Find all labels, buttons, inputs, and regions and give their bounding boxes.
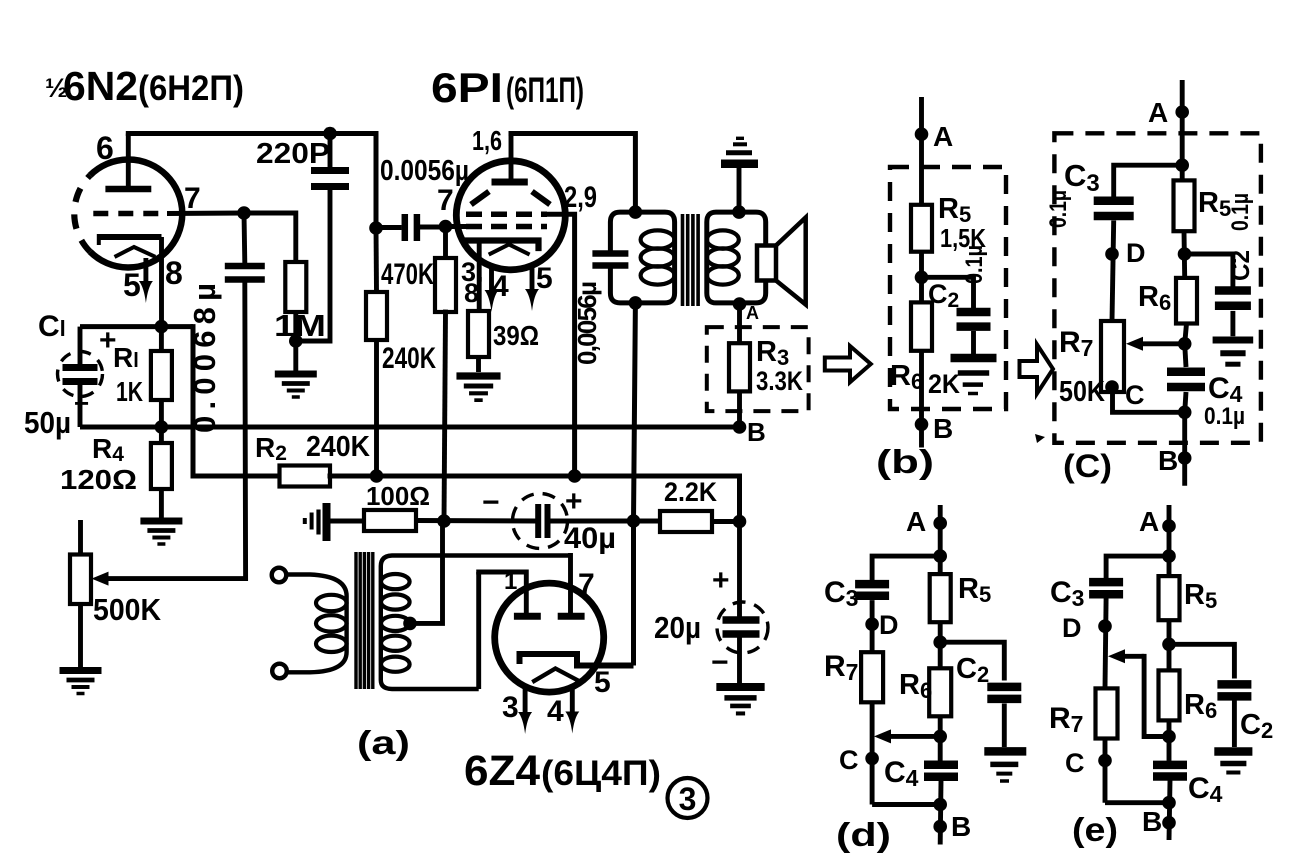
PT HT secondary winding: [381, 556, 570, 690]
node R6/wiper (d): [933, 730, 947, 744]
wire R4 to ground: [159, 489, 164, 518]
wire bottom to B (e): [1105, 800, 1169, 805]
resistor 39 ohm: [468, 311, 489, 357]
node OT primary top: [629, 205, 643, 219]
wiper arrow R7 (d): [888, 734, 938, 739]
wiper arrow 500K: [106, 576, 246, 581]
wire R1 bottom lead: [159, 400, 164, 427]
V1 cathode: [99, 234, 162, 240]
capacitor C2 (d): [987, 683, 1021, 692]
wire R6 to C4 (d): [938, 716, 943, 761]
svg-text:5: 5: [594, 666, 611, 699]
svg-text:B: B: [747, 417, 766, 447]
wire grid node to 0.0068u: [242, 213, 248, 263]
node A junction (c): [1175, 158, 1189, 172]
svg-text:3: 3: [679, 781, 697, 817]
ground below 1M: [275, 374, 317, 397]
svg-text:(e): (e): [1072, 811, 1118, 848]
dashed box (b): [890, 167, 1006, 409]
node B+ filter junction: [733, 515, 747, 529]
node R6/C4/wiper (c): [1178, 337, 1192, 351]
wire cathode bus down to R2: [193, 327, 280, 476]
svg-text:0.1µ: 0.1µ: [1204, 403, 1245, 430]
OT secondary frame: [707, 212, 766, 303]
wire R6 to C4 (e): [1167, 720, 1172, 761]
svg-text:(6П1П): (6П1П): [506, 71, 584, 110]
svg-text:2,9: 2,9: [564, 181, 597, 214]
node B (main): [733, 420, 747, 434]
capacitor C3 (c): [1094, 196, 1134, 205]
V3 anode 1 plate: [514, 613, 541, 620]
svg-text:−: −: [711, 646, 729, 679]
resistor R6 2K (b): [911, 302, 932, 350]
wire coupling cap to V2 grid: [420, 225, 446, 230]
wire bottom to B (d): [872, 802, 940, 807]
resistor R1 1K: [151, 351, 172, 400]
ground below 39 ohm: [456, 376, 500, 400]
svg-text:6Z4: 6Z4: [464, 747, 540, 795]
wire 0.0068u down to volume wiper: [242, 280, 248, 579]
wire OT primary bottom to raw B+ node: [634, 303, 636, 521]
wire anode1 return down: [476, 572, 481, 689]
mains terminal bottom: [272, 664, 287, 679]
wire V3 anode2 lead: [568, 556, 573, 614]
wire to C3 (c): [1114, 165, 1183, 196]
wire R7 to bottom (e): [1103, 739, 1108, 803]
capacitor C2 (b): [957, 308, 991, 317]
svg-text:20µ: 20µ: [654, 610, 701, 645]
V3 heater: [534, 669, 579, 682]
ground above speaker (inverted): [721, 138, 758, 164]
wiper arrow R7 (e): [1122, 654, 1144, 659]
V2 heater: [491, 244, 528, 253]
svg-text:5: 5: [123, 267, 141, 303]
V2 control grid (dashed): [466, 224, 547, 230]
node D (d): [865, 617, 879, 631]
V3 cathode: [520, 654, 631, 666]
svg-text:500K: 500K: [93, 592, 162, 627]
ground below C2 (d): [984, 751, 1026, 781]
resistor 1M: [285, 262, 306, 312]
wire C2 to ground (b): [971, 331, 976, 354]
node OT secondary top (to ground): [732, 205, 746, 219]
wire center tap to bias node: [410, 525, 443, 623]
wire to C2 (d): [940, 642, 1004, 678]
node B junction (d): [933, 798, 947, 812]
electrolytic 20u dashed circle: [717, 602, 768, 653]
wire to coupling cap: [376, 225, 402, 230]
wire C3 to R7 (c): [1112, 221, 1114, 322]
potentiometer 500K body: [70, 555, 91, 605]
wire chassis gnd to 100 ohm: [330, 519, 364, 524]
wire R6 to B stub (b): [919, 351, 924, 448]
svg-text:(b): (b): [876, 443, 934, 480]
node OT primary bottom: [629, 296, 643, 310]
capacitor C1 plates: [63, 364, 98, 371]
svg-text:8: 8: [165, 255, 183, 291]
svg-text:50K: 50K: [1059, 376, 1105, 408]
capacitor 40u plates: [535, 504, 541, 538]
V3 pin 4 heater arrow: [570, 689, 575, 716]
node C (d): [865, 752, 879, 766]
capacitor C2 (e): [1217, 680, 1251, 689]
ground below C2 (e): [1214, 752, 1252, 773]
svg-text:6PI: 6PI: [431, 64, 503, 111]
V1 heater: [116, 247, 153, 256]
node V2 grid junction: [439, 220, 453, 234]
wire to 2.2K: [634, 519, 661, 524]
node A (OT secondary bottom): [733, 297, 747, 311]
wire 1M to ground: [293, 312, 298, 371]
wire grid to 1M: [244, 213, 296, 262]
svg-text:0.0056µ: 0.0056µ: [380, 155, 469, 187]
wire R4 top lead: [159, 427, 164, 443]
capacitor C3 (d): [855, 580, 889, 589]
dashed box (c): [1054, 133, 1261, 443]
wire B+ to 20u: [737, 522, 742, 619]
wire V2 screen to B+ rail: [547, 214, 575, 476]
svg-text:240K: 240K: [306, 431, 370, 463]
svg-text:40µ: 40µ: [564, 522, 616, 555]
V1 grid (dashed): [93, 211, 168, 217]
svg-text:4: 4: [492, 270, 509, 303]
ground below C2 (c): [1213, 340, 1254, 364]
resistor R3 3.3K: [729, 343, 750, 391]
svg-text:A: A: [933, 121, 953, 152]
resistor 240K anode load: [366, 292, 387, 340]
node A (d): [933, 516, 947, 530]
V2 beam plate left: [471, 192, 489, 205]
svg-text:C: C: [1125, 380, 1145, 410]
svg-text:6: 6: [96, 130, 114, 166]
hollow arrow between (a) and (b): [825, 346, 871, 382]
svg-text:2K: 2K: [928, 369, 960, 399]
wire 470K top lead: [443, 227, 448, 259]
svg-text:A: A: [746, 303, 759, 323]
capacitor C4 (d): [924, 761, 958, 770]
wire R3 to B: [737, 391, 742, 427]
V2 pin 4 heater arrow: [489, 266, 494, 294]
dashed box around R3: [707, 327, 809, 411]
svg-text:0,0056µ: 0,0056µ: [572, 281, 602, 365]
V1 cathode hook: [97, 234, 101, 245]
wire C3 to R7 (d): [870, 600, 875, 652]
node B junction (e): [1162, 796, 1176, 810]
resistor R6 (d): [929, 668, 951, 716]
triode V1 1/2 6N2 envelope (dashed left): [90, 160, 182, 268]
small mark left of box (c): [1035, 434, 1045, 443]
svg-text:B: B: [1158, 445, 1178, 476]
wire 39 ohm to ground: [476, 357, 481, 372]
wire 20u to ground: [737, 634, 742, 684]
wire C4 to B stub (d): [938, 781, 944, 845]
wire 2.2K to B+ corner: [712, 519, 740, 524]
node C (c): [1105, 380, 1119, 394]
wire 220P top lead: [328, 134, 333, 168]
capacitor 20u plates: [723, 616, 760, 624]
wire V3 anode1 lead: [479, 572, 527, 613]
wire C3 to R7 (e): [1105, 598, 1106, 688]
wiper arrow R7 (c): [1140, 341, 1185, 346]
svg-text:+: +: [712, 564, 730, 597]
capacitor C4 (e): [1153, 761, 1187, 770]
capacitor 0.0068u: [225, 263, 265, 270]
svg-text:D: D: [1062, 613, 1082, 643]
ground below 20u: [716, 687, 764, 713]
svg-text:(a): (a): [357, 724, 410, 761]
V2 pin 5 heater arrow: [530, 265, 535, 293]
OT primary winding loops: [641, 230, 675, 248]
wire to C3 (e): [1106, 556, 1169, 577]
node bias/CT junction: [437, 514, 451, 528]
wire C2 to ground (c): [1230, 311, 1235, 336]
svg-text:(6Ц4П): (6Ц4П): [541, 754, 661, 793]
node HT center tap: [403, 617, 417, 631]
V2 screen grid (dashed): [466, 212, 547, 218]
svg-text:1K: 1K: [116, 376, 143, 407]
node A junction (e): [1162, 549, 1176, 563]
svg-text:1: 1: [504, 568, 517, 595]
svg-text:1M: 1M: [274, 308, 326, 343]
svg-text:39Ω: 39Ω: [493, 320, 539, 351]
svg-text:0.1µ: 0.1µ: [961, 245, 988, 284]
svg-text:7: 7: [184, 182, 201, 215]
svg-text:120Ω: 120Ω: [60, 464, 137, 495]
capacitor 220P: [311, 167, 349, 174]
node A junction (d): [933, 549, 947, 563]
node B (e): [1162, 816, 1176, 830]
wire V2 anode to output transformer: [511, 134, 635, 213]
wire 500K input stub: [78, 520, 83, 555]
electrolytic C1 50u dashed circle: [58, 352, 103, 397]
node screen on B+ rail: [568, 469, 582, 483]
node C (e): [1098, 754, 1112, 768]
wire to C2 (c): [1185, 254, 1233, 285]
ground below C2 (b): [951, 358, 997, 394]
svg-text:B: B: [1142, 806, 1162, 837]
figure number 3 circled: [668, 778, 708, 818]
PT primary winding: [287, 575, 347, 673]
wire V1 anode to 240K node: [128, 134, 376, 229]
wire A stub (e): [1167, 505, 1172, 576]
svg-text:+: +: [565, 485, 583, 518]
resistor R5 (e): [1159, 576, 1180, 620]
node grid junction: [237, 206, 251, 220]
wire 240K top lead: [374, 228, 379, 292]
OT core laminations: [681, 214, 685, 306]
rectifier V3 6Z4 envelope: [495, 583, 604, 692]
wire R5-R6 (b): [919, 252, 924, 303]
resistor R7 (e): [1096, 688, 1118, 738]
wire V1 grid lead: [167, 211, 244, 216]
wire R5-R6 (c): [1182, 231, 1188, 278]
V3 pin 3 heater arrow: [523, 688, 528, 716]
wire R7 to bottom (d): [870, 702, 875, 804]
node R5/R6/C2 (c): [1178, 247, 1192, 261]
output transformer primary frame: [610, 212, 674, 303]
svg-text:6N2: 6N2: [63, 63, 138, 109]
wire B stub (c): [1182, 412, 1187, 486]
V3 anode 2 plate: [558, 613, 585, 620]
svg-text:D: D: [1126, 238, 1146, 268]
svg-text:B: B: [951, 811, 971, 842]
svg-text:50µ: 50µ: [24, 405, 71, 440]
svg-text:A: A: [1139, 506, 1159, 537]
chassis ground (rotated): [305, 503, 327, 541]
node D (e): [1098, 619, 1112, 633]
wire 40u to 2.2K: [548, 519, 634, 524]
svg-text:C: C: [1065, 748, 1085, 778]
svg-text:0.1µ: 0.1µ: [1227, 193, 1254, 231]
wire R1 top lead: [159, 327, 164, 351]
node D (c): [1105, 247, 1119, 261]
svg-text:1,6: 1,6: [472, 125, 502, 156]
resistor R7 (d): [861, 652, 883, 702]
svg-text:7: 7: [578, 568, 595, 601]
svg-text:470K: 470K: [381, 258, 434, 291]
capacitor C4 (c): [1167, 367, 1205, 376]
svg-text:(d): (d): [836, 816, 891, 853]
wire wiper to R6 bottom (e): [1144, 656, 1169, 736]
svg-text:7: 7: [437, 184, 454, 217]
V2 beam plate right: [532, 192, 550, 205]
wire C to B branch (c): [1113, 392, 1185, 412]
node V1 anode / coupling cap: [369, 221, 383, 235]
node R5/R6/C2 (d): [933, 635, 947, 649]
node B (b): [915, 418, 929, 432]
wire R5-R6 (e): [1167, 620, 1172, 670]
V2 grid lead: [446, 224, 468, 229]
svg-text:C2: C2: [1225, 250, 1255, 281]
capacitor 0.0056u coupling: [402, 214, 409, 241]
potentiometer R7 50K (c): [1101, 321, 1124, 392]
node cathode junction: [155, 320, 169, 334]
wire C1 bottom lead: [78, 382, 83, 428]
V2 cathode bar: [468, 241, 539, 249]
capacitor C2 (c): [1215, 286, 1251, 295]
svg-text:0.1µ: 0.1µ: [1045, 190, 1072, 228]
resistor R5 1.5K (b): [911, 205, 932, 252]
svg-text:3.3K: 3.3K: [756, 366, 803, 396]
svg-text:8: 8: [464, 278, 479, 308]
wire OT secondary top to ground: [737, 167, 742, 212]
wire V1 cathode down pin8: [159, 237, 164, 327]
ground below R4: [140, 521, 182, 544]
speaker: [776, 218, 806, 305]
wire C2 to ground (d): [1002, 704, 1007, 748]
V1 anode plate: [105, 186, 151, 193]
node A (b): [915, 127, 929, 141]
node R5/R6/C2 (b): [915, 271, 929, 285]
resistor R2 240K: [280, 466, 331, 487]
svg-text:A: A: [906, 506, 926, 537]
wire C1 top lead: [78, 327, 83, 364]
svg-text:220P: 220P: [256, 138, 330, 170]
resistor R6 (e): [1159, 670, 1180, 720]
node 240K on B+ rail: [370, 469, 384, 483]
wire cathode to raw B+ node: [631, 521, 636, 666]
V1 pin 5 heater arrow: [143, 258, 148, 285]
wire R6 bottom (c): [1185, 324, 1187, 344]
node R5/R6/C2 (e): [1162, 638, 1176, 652]
wire R5-R6 (d): [938, 622, 943, 668]
svg-text:−: −: [482, 486, 500, 519]
wire A stub (c): [1180, 80, 1185, 180]
resistor R6 (c): [1176, 278, 1197, 324]
resistor 100 ohm: [364, 510, 416, 531]
pentode V2 6P1 envelope: [456, 161, 565, 270]
wire cathode bus bracket: [80, 324, 193, 329]
svg-text:D: D: [879, 610, 899, 640]
electrolytic 40u dashed circle: [513, 494, 568, 549]
node raw B+ junction: [627, 514, 641, 528]
node A (c): [1175, 105, 1189, 119]
wire 240K bottom lead: [374, 340, 379, 476]
capacitor C3 (e): [1089, 578, 1123, 587]
wire C4 bottom (c): [1185, 392, 1186, 412]
wire V2 cathode pins 3,8 down: [477, 241, 482, 312]
wire to C4 (c): [1185, 344, 1186, 367]
node 1M/220P junction: [289, 334, 303, 348]
mains terminal top: [272, 568, 287, 583]
resistor R5 (d): [930, 574, 951, 622]
resistor 470K grid leak: [435, 258, 456, 312]
resistor R5 (c): [1174, 180, 1195, 231]
resistor 2.2K: [660, 511, 712, 532]
wire to C2 (e): [1169, 644, 1234, 676]
svg-text:B: B: [933, 413, 953, 444]
OT secondary winding loops: [707, 230, 739, 248]
svg-text:(6Н2П): (6Н2П): [138, 69, 244, 108]
wire 100 ohm to 40u: [416, 518, 537, 524]
svg-text:(C): (C): [1063, 448, 1112, 484]
wire C2 to ground (e): [1232, 701, 1237, 748]
wire C4 to B stub (e): [1169, 781, 1170, 841]
resistor R4 120 ohm: [151, 443, 172, 489]
node A (e): [1162, 519, 1176, 533]
node R6/wiper (e): [1162, 730, 1176, 744]
wire A to R3: [737, 304, 742, 343]
svg-text:3: 3: [502, 691, 519, 724]
wire to C3 (d): [872, 556, 940, 579]
node R1/R4/rail B junction: [155, 420, 169, 434]
V1 anode lead: [126, 134, 131, 187]
svg-text:2.2K: 2.2K: [664, 477, 717, 507]
wire B+ rail through R2: [330, 476, 740, 521]
wire A stub (b): [919, 97, 924, 205]
svg-text:A: A: [1148, 97, 1168, 128]
hollow arrow between (b) and (c): [1020, 345, 1054, 394]
wire A stub (d): [938, 505, 943, 574]
svg-text:5: 5: [536, 262, 553, 295]
node B (d): [933, 820, 947, 834]
capacitor 0.0056u across OT primary: [592, 250, 628, 257]
svg-text:240K: 240K: [382, 342, 436, 375]
svg-text:−: −: [74, 388, 89, 418]
PT core laminations: [354, 552, 357, 689]
svg-text:100Ω: 100Ω: [366, 481, 430, 511]
V2 anode lead: [509, 134, 514, 180]
wire 500K to ground: [78, 604, 83, 667]
wire 220P bottom to 1M ground node: [296, 187, 330, 342]
ground below 500K: [60, 671, 102, 694]
node B junction (c): [1178, 406, 1192, 420]
svg-text:4: 4: [547, 695, 564, 728]
svg-text:C: C: [839, 745, 859, 775]
V2 anode plate: [492, 179, 528, 186]
wire B rail: [80, 425, 740, 430]
node anode/220P junction: [323, 127, 337, 141]
